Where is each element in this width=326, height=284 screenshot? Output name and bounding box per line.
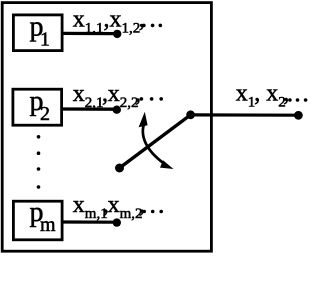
rotation arrow head up bbox=[139, 112, 148, 127]
node dot end of P2 wire bbox=[113, 106, 121, 114]
svg-text:x2,: x2, bbox=[266, 81, 289, 111]
ellipsis dots row1 bbox=[142, 24, 162, 28]
process box Pm bbox=[13, 201, 62, 240]
output end node dot bbox=[294, 111, 303, 120]
process box P1 bbox=[13, 15, 62, 51]
vertical ellipsis between P2 and Pm bbox=[37, 135, 41, 189]
node dot end of Pm wire bbox=[113, 218, 121, 226]
rotation arrow head down-right bbox=[160, 160, 174, 169]
wire from P2 bbox=[62, 107, 117, 110]
switch pole node dot bbox=[115, 164, 124, 173]
output wire bbox=[191, 113, 299, 116]
rotation arrow arc bbox=[143, 126, 164, 164]
wire from Pm bbox=[62, 220, 117, 223]
outer system box bbox=[2, 3, 211, 252]
ellipsis dots output bbox=[288, 98, 307, 102]
wire from P1 bbox=[62, 32, 117, 35]
node dot end of P1 wire bbox=[113, 30, 121, 38]
process box P2 bbox=[13, 89, 62, 125]
ellipsis dots row3 bbox=[142, 210, 163, 214]
ellipsis dots row2 bbox=[140, 97, 163, 101]
switch arm wire bbox=[120, 115, 191, 168]
switch pivot node dot bbox=[186, 110, 195, 119]
